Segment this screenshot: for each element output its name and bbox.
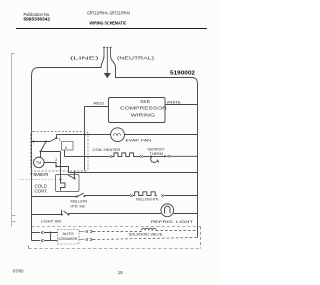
timer contact wire from rail (32, 141, 51, 143)
bulb filament loop (165, 206, 171, 213)
left rail (LINE) (31, 77, 33, 241)
wire x to junction (143, 156, 150, 158)
light switch left dot (61, 213, 63, 215)
timer motor return wire to neutral (44, 163, 197, 173)
defrost thermostat bimetal curl (151, 157, 159, 162)
timer box (dashed) (31, 132, 89, 172)
wire evap fan row (57, 134, 198, 136)
coil heater row wire (65, 156, 110, 158)
wire solenoid valve to neutral rail (dashed) (156, 230, 198, 232)
refrigerator light bulb circle (161, 204, 174, 217)
compressor box (109, 98, 166, 123)
icemaker return wire to neutral rail (dashed) (93, 238, 198, 240)
svg-text:HTR. SW.: HTR. SW. (71, 203, 86, 208)
svg-text:SEE: SEE (140, 99, 150, 104)
coil heater connector x (110, 155, 112, 158)
wire mullion switch to heater (85, 195, 130, 197)
svg-text:RED: RED (94, 101, 105, 106)
coil heater element (square wave resistor) (112, 153, 136, 157)
icemaker boundary dashed right (200, 227, 202, 249)
svg-text:AUTO: AUTO (63, 231, 74, 236)
svg-text:DEFROST: DEFROST (148, 147, 166, 151)
evap fan motor circle (111, 128, 125, 142)
timer contact arm (50, 138, 57, 142)
wire defrost row to neutral rail (166, 155, 198, 157)
cold control bellows element (61, 181, 66, 191)
artifact dashed line left of cold control (19, 179, 56, 181)
wire terminal 4 to defrost row (64, 150, 66, 157)
junction dot above timer motor (39, 150, 41, 152)
wire light switch to bulb (69, 213, 162, 215)
icemaker lower output connector (79, 238, 93, 241)
mullion switch left dot (76, 195, 78, 197)
svg-text:07/00: 07/00 (13, 269, 24, 274)
junction dot timer motor tap (45, 140, 47, 142)
wiring group (19, 47, 201, 248)
svg-text:5190002: 5190002 (170, 70, 195, 76)
water solenoid valve coil (142, 228, 156, 230)
wire dot to connector (152, 156, 164, 158)
svg-text:(NEUTRAL): (NEUTRAL) (117, 55, 155, 61)
power cord plug prong left (103, 48, 105, 56)
svg-text:LIGHT SW.: LIGHT SW. (41, 218, 62, 223)
defrost thermostat junction dot (150, 155, 152, 157)
header rule (16, 28, 207, 30)
cold control arm (68, 175, 75, 179)
svg-text:MULLION HTR.: MULLION HTR. (136, 197, 159, 202)
mullion switch right dot (83, 195, 85, 197)
svg-text:WIRING: WIRING (131, 112, 156, 117)
svg-text:TM: TM (36, 161, 41, 165)
svg-text:5995336342: 5995336342 (24, 17, 51, 22)
svg-text:ICEMAKER: ICEMAKER (59, 237, 78, 241)
timer motor circle TM (34, 157, 45, 168)
wire bulb to neutral rail (174, 213, 198, 215)
svg-text:1: 1 (59, 138, 61, 142)
svg-text:COIL HEATER: COIL HEATER (93, 147, 121, 152)
icemaker upper output connector (79, 230, 93, 233)
right rail (NEUTRAL) (197, 84, 199, 238)
icemaker upper plug connector (41, 231, 44, 234)
icemaker boundary dashed bottom (29, 244, 201, 248)
wire mullion heater to neutral rail (164, 195, 197, 197)
icemaker lower lead from rail (32, 240, 40, 242)
svg-text:WHITE: WHITE (167, 99, 182, 104)
mullion switch arm (77, 193, 84, 196)
defrost row connector x (168, 155, 170, 158)
wire neutral-side from plug (111, 56, 198, 84)
defrost thermostat right dot (164, 155, 166, 157)
svg-text:EVAP. FAN: EVAP. FAN (126, 137, 152, 142)
junction dot fan row / compressor drop (84, 134, 86, 136)
wire line-side from plug (32, 56, 105, 77)
mullion heater connector x right (161, 194, 163, 197)
ground arrowhead (105, 74, 110, 78)
terminal 4 box (62, 142, 74, 151)
wire compressor vertical drop (84, 107, 86, 171)
svg-text:CONT.: CONT. (35, 189, 48, 194)
light row wire from rail (32, 214, 62, 216)
junction dot on rail wire (32, 140, 34, 142)
mullion heater element (square wave resistor) (133, 192, 157, 196)
svg-text:4: 4 (65, 145, 68, 150)
light switch plunger (61, 210, 63, 215)
power cord plug prong center (ground) (106, 48, 108, 74)
wire lower connector to icemaker box (44, 240, 58, 242)
icemaker lower plug connector (41, 239, 44, 242)
wire connector to icemaker box (44, 232, 58, 241)
cold control left terminal dot (59, 178, 61, 180)
wire junction to cold control left (41, 152, 61, 180)
svg-text:TIMER: TIMER (30, 172, 49, 177)
auto icemaker box (dashed) (58, 230, 80, 245)
cold control box (56, 175, 80, 192)
svg-text:WIRING SCHEMATIC: WIRING SCHEMATIC (90, 20, 128, 25)
svg-text:2: 2 (55, 158, 57, 162)
wire RED to compressor box (85, 106, 109, 108)
power cord plug prong right (110, 48, 112, 56)
stub terminal to fan row (56, 135, 58, 139)
mullion heater connector x left (130, 194, 132, 197)
svg-text:THERM: THERM (150, 152, 164, 156)
wire WHITE from compressor box to neutral rail (165, 104, 198, 106)
svg-text:GRT21PRH4, GRT21PRH4: GRT21PRH4, GRT21PRH4 (87, 10, 131, 15)
defrost thermostat connector x (140, 155, 142, 158)
wire to timer motor (41, 142, 47, 158)
timer terminal dot (fan feed) (55, 137, 57, 139)
svg-text:18: 18 (118, 270, 123, 275)
mullion heater row wire from rail (32, 196, 77, 198)
light switch right dot (68, 214, 70, 216)
svg-text:SOLENOID VALVE: SOLENOID VALVE (129, 233, 164, 237)
icemaker upper lead from rail (32, 232, 40, 234)
wire to solenoid valve (dashed) (93, 231, 142, 233)
wire to defrost thermostat (135, 156, 140, 158)
left page border line (12, 54, 16, 228)
svg-text:(LINE): (LINE) (70, 55, 99, 61)
icemaker boundary dashed top (32, 226, 201, 228)
wire cold control right riser (74, 171, 76, 179)
svg-text:REFRIG. LIGHT: REFRIG. LIGHT (151, 219, 194, 224)
cold control right terminal dot (73, 177, 75, 179)
svg-text:COMPRESSOR: COMPRESSOR (120, 105, 167, 110)
light switch arm (64, 211, 69, 215)
